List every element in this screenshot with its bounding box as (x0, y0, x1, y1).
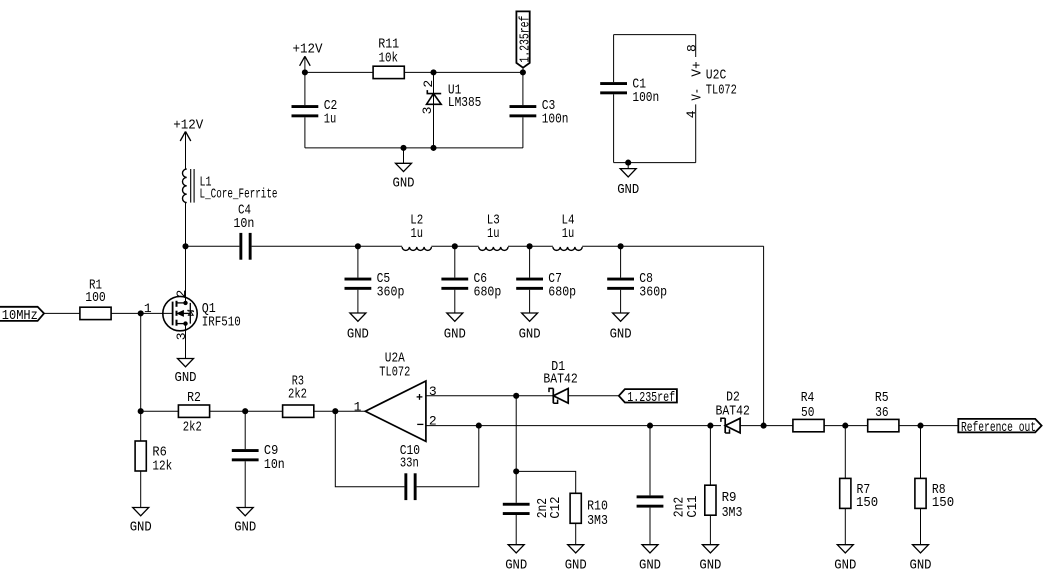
svg-text:GND: GND (234, 519, 256, 535)
svg-text:GND: GND (444, 326, 466, 342)
inductor L3 (479, 212, 508, 250)
wire gate node down to R2 (140, 313, 142, 411)
wire +12V node to R11 (305, 71, 373, 73)
svg-text:R4: R4 (801, 390, 815, 406)
svg-text:2k2: 2k2 (183, 420, 202, 436)
svg-text:BAT42: BAT42 (716, 403, 750, 419)
wire filter output drop (763, 246, 765, 425)
svg-text:+12V: +12V (293, 42, 323, 58)
net label 1.235ref (horizontal flag) (619, 389, 677, 406)
svg-text:360p: 360p (377, 284, 405, 300)
resistor R11 (373, 36, 404, 78)
wire R5 to output flag (899, 425, 958, 427)
svg-text:GND: GND (834, 558, 856, 574)
wire rail C5 to L2 (358, 245, 402, 247)
resistor R10 (570, 493, 608, 529)
ground R6 (133, 508, 149, 516)
power +12V (main) (173, 118, 203, 169)
inductor L4 (553, 212, 582, 250)
capacitor C10 (400, 443, 420, 500)
node L1/C4/Q1 drain (182, 243, 188, 249)
svg-text:R5: R5 (875, 390, 889, 406)
svg-text:GND: GND (347, 326, 369, 342)
resistor R1 (80, 277, 111, 319)
wire U2C bottom rail (614, 162, 696, 164)
wire D1 to 1.235ref flag (568, 395, 619, 397)
capacitor C4 (233, 203, 254, 260)
ground R9 (702, 545, 718, 553)
svg-text:3: 3 (429, 384, 437, 399)
capacitor C8 (607, 246, 667, 313)
svg-text:GND: GND (519, 326, 541, 342)
wire L2 to C6 (431, 245, 478, 247)
ground Q1 source (175, 324, 197, 386)
svg-text:V-: V- (690, 88, 706, 101)
node GND tap reference block (400, 145, 406, 151)
node +12V/C2/R11 (302, 69, 308, 75)
svg-text:C12: C12 (548, 497, 564, 519)
svg-text:2: 2 (421, 80, 436, 88)
svg-text:R2: R2 (187, 390, 201, 406)
svg-text:1u: 1u (562, 226, 575, 242)
svg-text:3M3: 3M3 (587, 513, 608, 529)
power +12V (reference block) (293, 42, 323, 73)
node R8 tap (917, 423, 923, 429)
capacitor C7 (516, 246, 576, 313)
node R9 tap (707, 423, 713, 429)
node R2/R6 (138, 408, 144, 414)
ground C7 (522, 313, 538, 321)
node gate/R2 branch (138, 310, 144, 316)
wire L4 to right corner (582, 245, 763, 247)
ground C8 (613, 313, 629, 321)
svg-text:GND: GND (910, 558, 932, 574)
inductor L2 (402, 212, 431, 250)
svg-text:GND: GND (610, 326, 632, 342)
node C8 tap (618, 243, 624, 249)
wire Q1 drain (185, 246, 187, 303)
svg-text:GND: GND (639, 558, 661, 574)
node C11 tap (647, 423, 653, 429)
capacitor C2 (292, 72, 338, 147)
node C7 tap (527, 243, 533, 249)
svg-text:TL072: TL072 (379, 365, 410, 381)
svg-text:360p: 360p (639, 284, 667, 300)
svg-text:C11: C11 (685, 496, 701, 518)
ground R8 (913, 545, 929, 553)
capacitor C6 (441, 246, 501, 313)
svg-text:TL072: TL072 (706, 83, 737, 99)
ground reference block (393, 148, 415, 192)
svg-text:2: 2 (429, 414, 437, 429)
svg-text:GND: GND (393, 176, 415, 192)
wire L3 to C7 (508, 245, 553, 247)
svg-text:3: 3 (420, 107, 435, 115)
wire 10MHz to R1 (44, 312, 80, 314)
diode U1 LM385 (420, 72, 481, 147)
ground C5 (350, 313, 366, 321)
net flag Reference_out (958, 419, 1041, 436)
resistor R5 (868, 390, 899, 432)
svg-text:50: 50 (801, 405, 814, 421)
wire to R10 (516, 471, 576, 493)
wire R11 to U1/C3 top rail (404, 71, 523, 73)
ground C11 (642, 545, 658, 553)
svg-text:10n: 10n (233, 216, 254, 232)
wire U2C top rail (614, 34, 696, 36)
capacitor C3 (510, 72, 569, 147)
svg-text:GND: GND (565, 558, 587, 574)
resistor R6 (135, 411, 172, 507)
svg-text:1.235ref: 1.235ref (627, 390, 675, 406)
wire L1 to drain node (185, 203, 187, 247)
svg-text:LM385: LM385 (448, 95, 482, 111)
svg-text:R9: R9 (722, 490, 737, 506)
svg-text:8: 8 (684, 44, 699, 52)
wire R3 to op-amp (314, 410, 366, 412)
ground C6 (447, 313, 463, 321)
svg-text:100n: 100n (632, 90, 659, 106)
ground U2C (617, 163, 639, 198)
resistor R8 (915, 426, 954, 545)
svg-text:GND: GND (505, 558, 527, 574)
svg-text:680p: 680p (548, 284, 576, 300)
net flag 10MHz input (0, 307, 44, 324)
capacitor C11 (637, 426, 702, 545)
svg-text:GND: GND (130, 519, 152, 535)
resistor R4 (793, 390, 824, 432)
svg-text:100n: 100n (542, 112, 569, 128)
svg-text:3M3: 3M3 (722, 505, 743, 521)
svg-text:150: 150 (932, 495, 954, 511)
svg-text:36: 36 (875, 405, 888, 421)
svg-text:150: 150 (856, 495, 878, 511)
svg-text:12k: 12k (152, 458, 172, 474)
resistor R9 (705, 426, 743, 545)
svg-text:Reference_out: Reference_out (961, 420, 1036, 436)
wire bottom rail of reference block (305, 147, 523, 149)
node C9 tap (242, 408, 248, 414)
wire pin3 to D1 (426, 395, 553, 397)
node C6 tap (452, 243, 458, 249)
resistor R7 (840, 426, 879, 545)
svg-text:GND: GND (699, 558, 721, 574)
capacitor C1 (600, 35, 659, 163)
node U2C ground tap (625, 160, 631, 166)
wire R2 to C9 node (210, 410, 283, 412)
wire C12 branch down (515, 396, 517, 472)
node filter drop joins (761, 423, 767, 429)
svg-text:GND: GND (617, 182, 639, 198)
svg-text:680p: 680p (474, 284, 502, 300)
svg-text:V+: V+ (690, 61, 706, 77)
feedback loop wire right (417, 426, 479, 487)
ground R10 (565, 523, 587, 573)
wire C4 to filter rail (252, 245, 358, 247)
node R7 tap (842, 423, 848, 429)
node C3 top / 1.235ref (520, 69, 526, 75)
svg-text:1u: 1u (487, 226, 500, 242)
svg-text:GND: GND (175, 370, 197, 386)
svg-text:33n: 33n (400, 456, 419, 472)
node op-amp output/feedback (332, 408, 338, 414)
node C12/R10 split (513, 468, 519, 474)
op-amp U2C power pins TL072 (684, 35, 737, 163)
svg-text:10k: 10k (379, 50, 399, 66)
net label 1.235ref (vertical flag) (516, 11, 533, 72)
node U1 top (430, 69, 436, 75)
svg-text:1.235ref: 1.235ref (518, 16, 534, 63)
node C12 branch on pin3 line (513, 393, 519, 399)
op-amp U2A TL072 (354, 350, 437, 441)
svg-text:4: 4 (684, 110, 699, 118)
wire R1 to Q1 gate (111, 312, 173, 314)
svg-text:+12V: +12V (173, 118, 203, 134)
capacitor C9 (232, 411, 285, 507)
transistor Q1 IRF510 (163, 290, 241, 341)
diode D1 BAT42 (543, 359, 577, 403)
node U1 bottom (430, 145, 436, 151)
ground C9 (237, 508, 253, 516)
svg-text:U2C: U2C (706, 67, 727, 83)
svg-text:1u: 1u (324, 112, 337, 128)
node feedback riser (476, 423, 482, 429)
svg-text:3: 3 (174, 332, 189, 340)
ground R7 (837, 545, 853, 553)
wire pin2 line (426, 425, 721, 427)
svg-text:1u: 1u (410, 226, 423, 242)
svg-text:2k2: 2k2 (288, 387, 307, 403)
feedback loop wire (335, 411, 404, 487)
resistor R2 (178, 390, 209, 435)
wire D2 to R4 (740, 425, 793, 427)
svg-text:100: 100 (85, 290, 106, 306)
ground C12 (508, 545, 524, 553)
svg-text:1: 1 (144, 301, 152, 316)
capacitor C12 (503, 471, 564, 544)
svg-text:10n: 10n (264, 457, 285, 473)
wire node to C4 (186, 245, 240, 247)
svg-text:10MHz: 10MHz (2, 308, 38, 324)
svg-text:IRF510: IRF510 (202, 315, 241, 331)
node C5 tap (355, 243, 361, 249)
capacitor C5 (345, 246, 405, 313)
wire node to R2 (141, 410, 179, 412)
svg-text:1: 1 (354, 400, 362, 415)
inductor L1 L_Core_Ferrite (182, 169, 277, 203)
diode D2 BAT42 (716, 390, 750, 434)
resistor R3 (283, 374, 314, 418)
svg-text:2: 2 (174, 290, 189, 298)
svg-text:L_Core_Ferrite: L_Core_Ferrite (200, 187, 278, 203)
wire R4 to R5 (824, 425, 868, 427)
svg-text:BAT42: BAT42 (543, 371, 577, 387)
